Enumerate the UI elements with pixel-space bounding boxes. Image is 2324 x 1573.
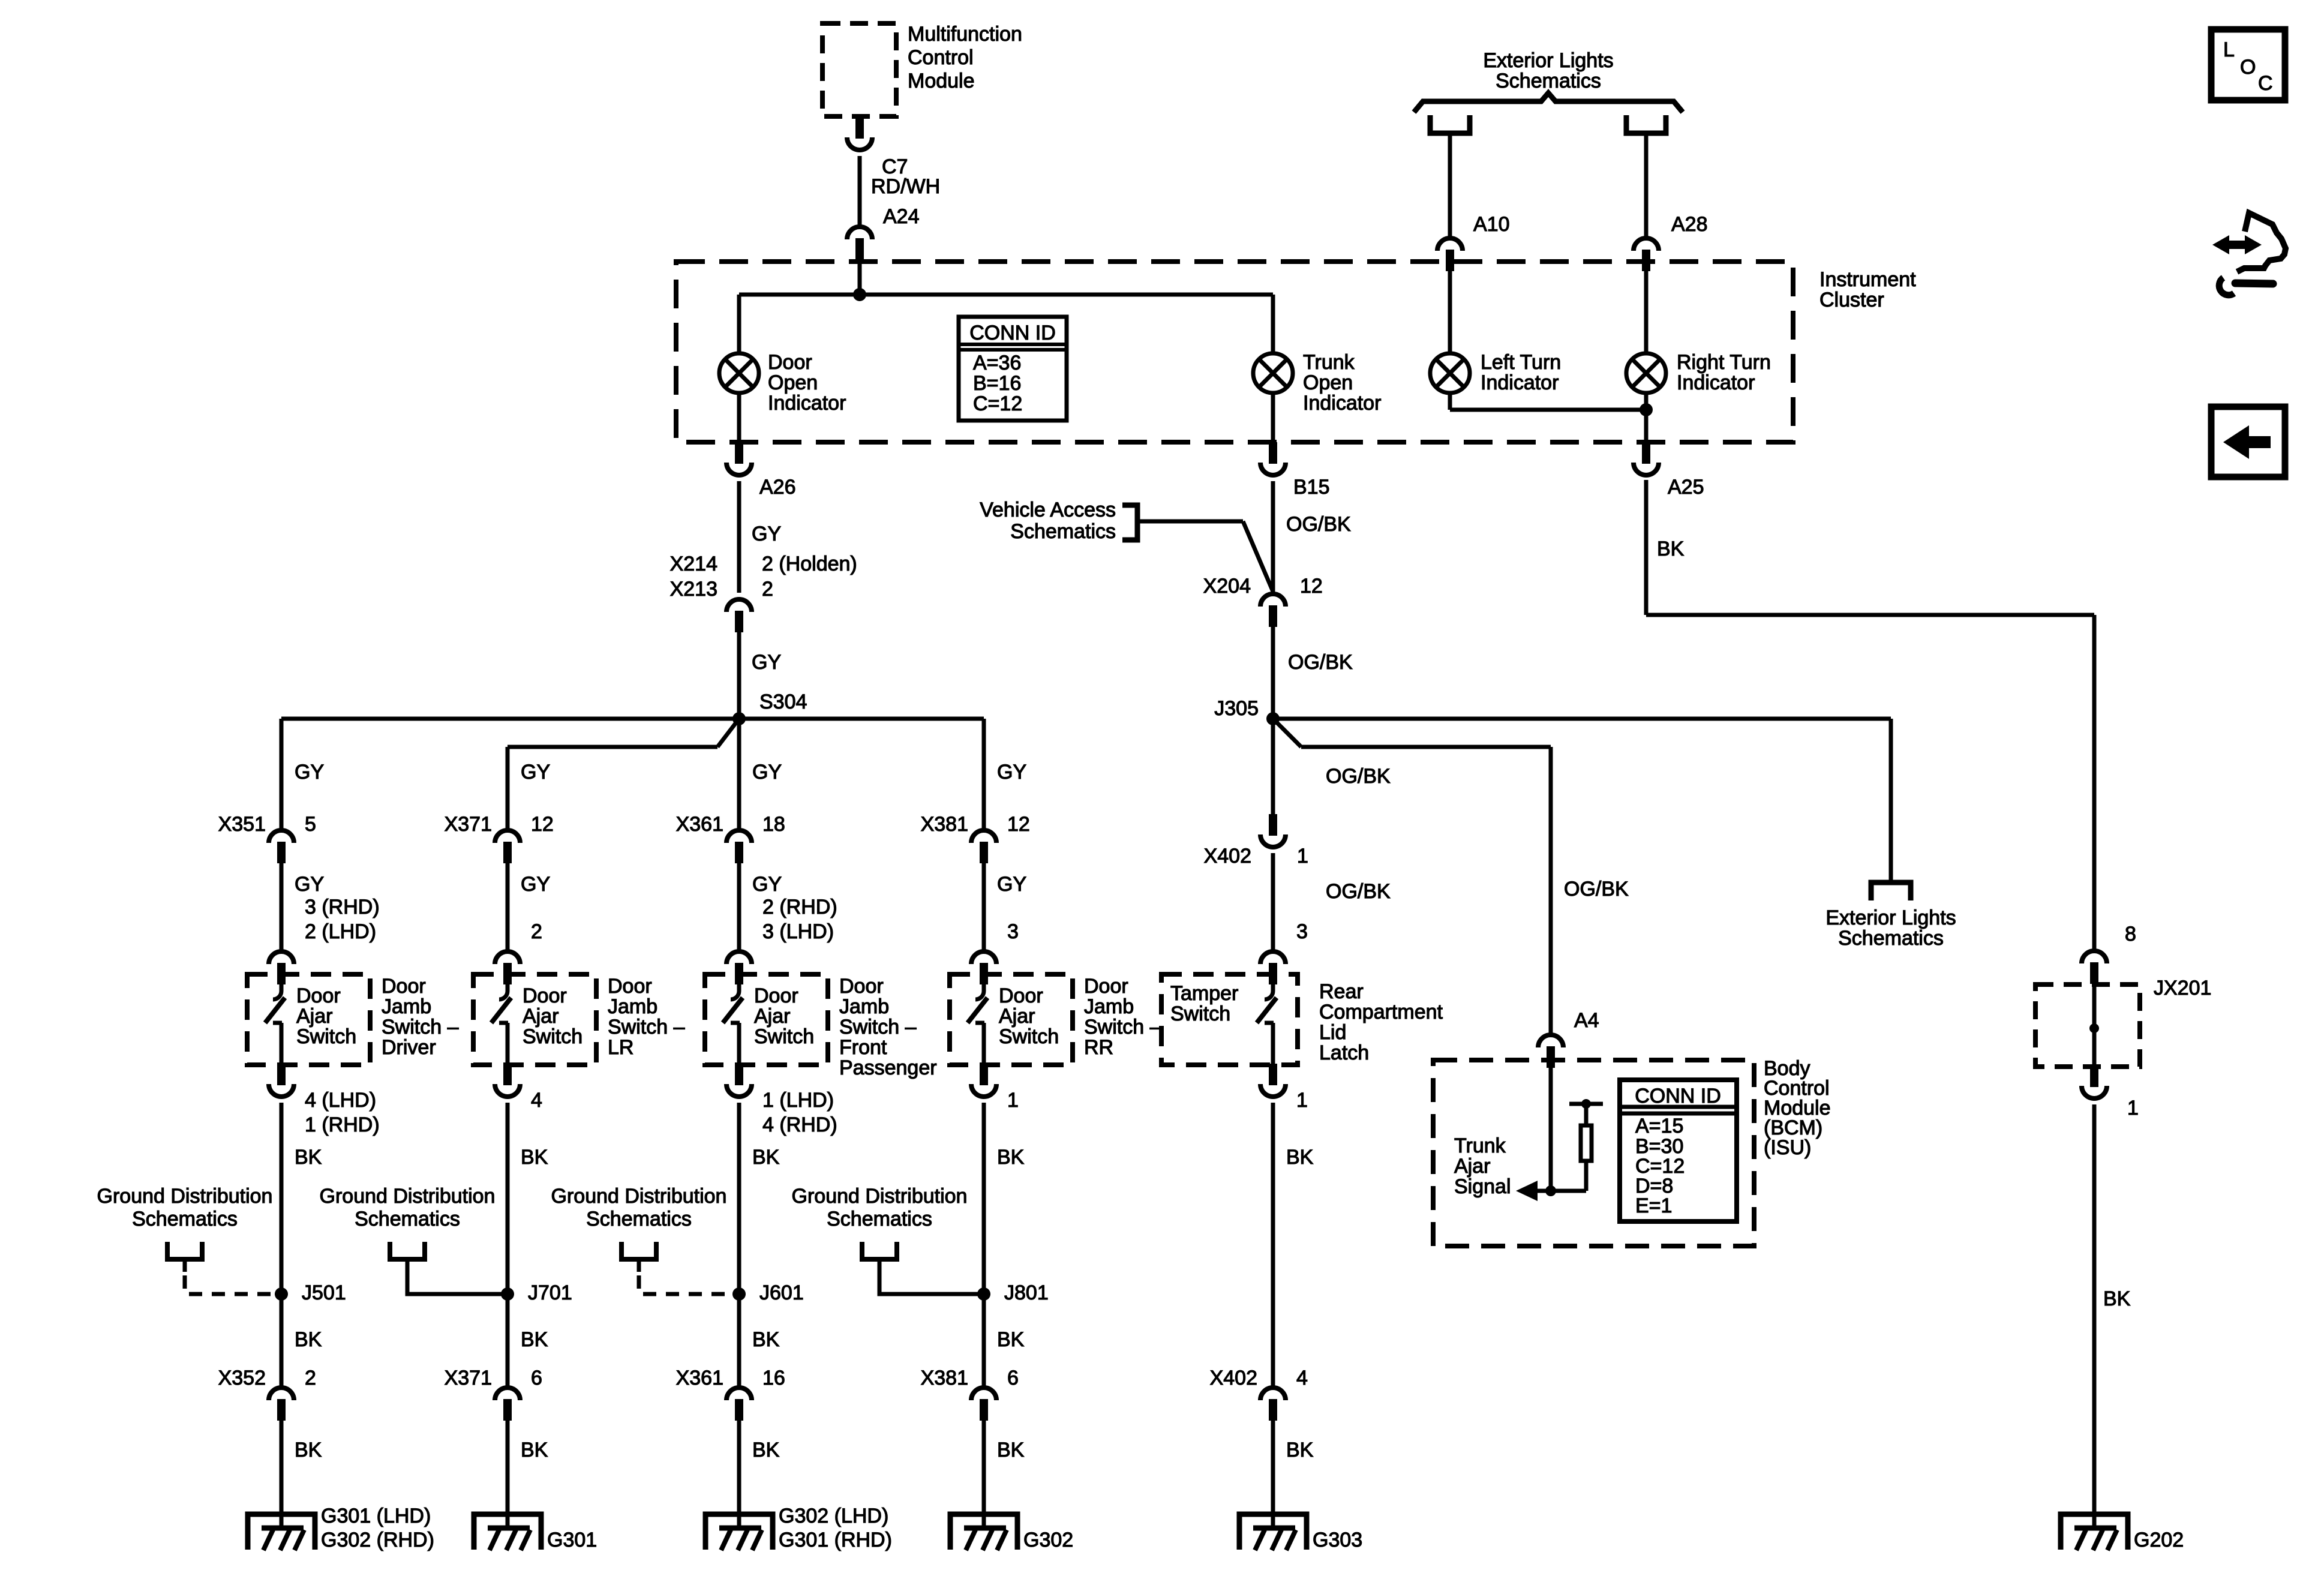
wire J701 down [506, 1294, 510, 1388]
svg-text:LR: LR [608, 1036, 633, 1059]
svg-text:Door: Door [296, 984, 341, 1007]
svg-text:Switch: Switch [1170, 1002, 1230, 1025]
svg-text:Door: Door [1084, 975, 1128, 998]
svg-text:Exterior Lights: Exterior Lights [1825, 906, 1956, 929]
wire trunk ajar signal [1535, 1189, 1586, 1193]
svg-text:G301 (LHD): G301 (LHD) [321, 1505, 431, 1527]
connector B15 (cluster output) [1260, 442, 1286, 475]
svg-text:X361: X361 [676, 1367, 723, 1389]
svg-text:E=1: E=1 [1635, 1194, 1672, 1217]
lamp: Door Open Indicator [719, 353, 759, 393]
wire Right Turn lamp to A25 [1644, 393, 1649, 443]
svg-text:Indicator: Indicator [1481, 371, 1559, 394]
wire S1 to ground splice (BK) [280, 1103, 284, 1294]
wire from Vehicle Access bracket [1137, 520, 1243, 524]
svg-text:Switch –: Switch – [839, 1016, 917, 1038]
switch S4: Door Jamb Switch - RR (dashed box) [950, 974, 1073, 1065]
svg-text:Indicator: Indicator [768, 392, 846, 415]
svg-text:12: 12 [1007, 813, 1030, 836]
wire S4 to ground splice (BK) [982, 1103, 986, 1294]
svg-text:BK: BK [752, 1439, 780, 1461]
switch blade S3 [723, 984, 743, 1065]
link to J701 [407, 1257, 503, 1294]
svg-text:5: 5 [305, 813, 316, 836]
svg-text:Open: Open [1303, 371, 1353, 394]
svg-text:GY: GY [997, 761, 1026, 784]
svg-text:Front: Front [839, 1036, 887, 1059]
svg-text:Door: Door [768, 351, 812, 374]
svg-text:Schematics: Schematics [1838, 927, 1944, 950]
svg-text:RR: RR [1084, 1036, 1113, 1059]
connector X371 pin 12 [495, 830, 520, 863]
wire Door lamp to A26 [737, 393, 741, 443]
wire C7 to A24 (RD/WH) [858, 156, 862, 227]
svg-text:J601: J601 [759, 1281, 804, 1304]
module: Body Control Module BCM (dashed box) [1433, 1060, 1754, 1246]
svg-text:B=16: B=16 [973, 372, 1021, 395]
svg-text:Lid: Lid [1319, 1021, 1346, 1044]
connector pin 1 (out of JX201) [2082, 1065, 2107, 1098]
svg-text:J801: J801 [1004, 1281, 1049, 1304]
dashed link to J501 [183, 1257, 187, 1272]
bracket for Vehicle Access Schematics [1122, 505, 1137, 540]
lamp: Trunk Open Indicator [1253, 353, 1293, 393]
svg-text:B15: B15 [1293, 476, 1330, 499]
svg-text:Jamb: Jamb [1084, 995, 1134, 1018]
wire X371 to switch (GY) [506, 863, 510, 951]
svg-text:8: 8 [2125, 923, 2136, 945]
svg-text:A26: A26 [759, 476, 796, 499]
splice J601 [732, 1287, 746, 1301]
table: CONN ID (BCM) [1620, 1080, 1737, 1221]
connector A28 (into cluster) [1634, 238, 1659, 271]
switch S1: Door Jamb Switch - Driver (dashed box) [247, 974, 370, 1065]
splice J501 [275, 1287, 288, 1301]
svg-text:Ajar: Ajar [296, 1005, 332, 1028]
icon: diagnostic pointer (double arrow + wrench) [2212, 235, 2262, 254]
ground G202 [2061, 1514, 2128, 1550]
connector out of Door Jamb Switch - Front Passenger [726, 1064, 752, 1097]
svg-text:A25: A25 [1668, 476, 1704, 499]
svg-text:Driver: Driver [382, 1036, 436, 1059]
svg-text:BK: BK [295, 1439, 322, 1461]
wire to X381 (GY) [982, 719, 986, 830]
svg-text:2 (LHD): 2 (LHD) [305, 920, 376, 943]
svg-text:Door: Door [839, 975, 884, 998]
wire A26 to X213 (GY) [737, 481, 741, 593]
svg-text:JX201: JX201 [2154, 977, 2211, 999]
svg-text:X402: X402 [1210, 1367, 1257, 1389]
wire to Door Open Indicator [737, 295, 741, 353]
dashed link to J601 [637, 1257, 641, 1272]
wire Trunk lamp to B15 [1271, 393, 1275, 443]
wire JX201 to G202 (BK) [2092, 1104, 2097, 1528]
connector JX201 (dashed box) [2035, 984, 2140, 1067]
svg-text:G303: G303 [1313, 1529, 1362, 1551]
junction at trunk ajar signal [1545, 1185, 1556, 1196]
svg-text:Trunk: Trunk [1303, 351, 1355, 374]
svg-text:BK: BK [521, 1439, 548, 1461]
svg-text:Jamb: Jamb [839, 995, 889, 1018]
wire J601 down [737, 1294, 741, 1388]
svg-text:Schematics: Schematics [586, 1208, 692, 1230]
svg-text:2: 2 [762, 578, 773, 601]
wire J305 down to X402 (OG/BK) [1271, 719, 1275, 815]
module M1: Multifunction Control Module (dashed box) [822, 23, 896, 116]
connector out of Tamper Switch pin 1 [1260, 1064, 1286, 1097]
wire X402 to tamper switch (OG/BK) [1271, 853, 1275, 951]
svg-text:1: 1 [1296, 1089, 1308, 1112]
connector X402 pin 4 [1260, 1388, 1286, 1421]
connector A25 (cluster output) [1634, 442, 1659, 475]
svg-text:OG/BK: OG/BK [1286, 513, 1351, 536]
bracket Ground Distribution (J601) [621, 1242, 656, 1259]
wire A25 to right column [1646, 613, 2094, 617]
svg-text:A=36: A=36 [973, 352, 1021, 374]
wire A10 to Left Turn lamp [1448, 271, 1452, 353]
svg-text:X402: X402 [1204, 845, 1251, 867]
svg-text:BK: BK [997, 1439, 1025, 1461]
connector X352 pin 2 [269, 1388, 294, 1421]
module: Instrument Cluster (dashed box) [676, 262, 1793, 442]
svg-text:Ground Distribution: Ground Distribution [792, 1185, 968, 1208]
wire B15 to X204 (OG/BK) [1271, 481, 1275, 593]
svg-text:Ground Distribution: Ground Distribution [97, 1185, 273, 1208]
svg-text:Schematics: Schematics [1010, 520, 1116, 543]
svg-text:BK: BK [997, 1146, 1025, 1169]
wire Left Turn lamp down [1448, 393, 1452, 410]
svg-text:BK: BK [295, 1328, 322, 1351]
svg-text:Schematics: Schematics [355, 1208, 460, 1230]
svg-text:Switch –: Switch – [1084, 1016, 1161, 1038]
connector out of Door Jamb Switch - LR [495, 1064, 520, 1097]
svg-text:Door: Door [608, 975, 652, 998]
svg-text:J305: J305 [1214, 697, 1259, 720]
wire to X351 (GY) [280, 719, 284, 830]
wire X213 to S304 (GY) [737, 632, 741, 719]
wire tamper switch to X402 pin 4 (BK) [1271, 1103, 1275, 1388]
svg-text:Latch: Latch [1319, 1041, 1369, 1064]
connector A24 (into instrument cluster) [847, 227, 872, 260]
svg-text:Indicator: Indicator [1677, 371, 1755, 394]
svg-text:Schematics: Schematics [827, 1208, 932, 1230]
off-page connector to Exterior Lights (left) [1430, 115, 1470, 133]
svg-text:A4: A4 [1574, 1009, 1599, 1032]
switch S2: Door Jamb Switch - LR (dashed box) [473, 974, 596, 1065]
svg-text:12: 12 [531, 813, 554, 836]
switch blade S1 [265, 984, 285, 1065]
switch S3: Door Jamb Switch - Front Passenger (dashed box) [705, 974, 828, 1065]
icon: LOC reference box [2211, 29, 2285, 100]
svg-text:Switch: Switch [754, 1025, 814, 1048]
splice J801 [977, 1287, 990, 1301]
wire J801 down [982, 1294, 986, 1388]
connector into Tamper Switch pin 3 [1260, 951, 1286, 984]
svg-text:Open: Open [768, 371, 818, 394]
junction on cluster feed wire [853, 288, 866, 301]
bracket Ground Distribution (J801) [862, 1242, 897, 1259]
svg-text:A10: A10 [1473, 213, 1510, 236]
svg-text:4 (LHD): 4 (LHD) [305, 1089, 376, 1112]
ground G302 [950, 1514, 1017, 1550]
svg-text:3: 3 [1296, 920, 1308, 943]
svg-text:X381: X381 [921, 813, 968, 836]
svg-text:C=12: C=12 [973, 392, 1022, 415]
connector A26 (cluster output) [726, 442, 752, 475]
connector pin 8 (into JX201) [2082, 951, 2107, 984]
svg-text:CONN ID: CONN ID [969, 322, 1056, 344]
wire X351 to switch (GY) [280, 863, 284, 951]
svg-text:1: 1 [1297, 845, 1308, 867]
wire cluster internal bus [739, 293, 1273, 297]
svg-text:BK: BK [521, 1146, 548, 1169]
off-page connector Exterior Lights Schematics (bottom) [1871, 882, 1911, 900]
svg-text:Compartment: Compartment [1319, 1001, 1443, 1023]
svg-text:16: 16 [762, 1367, 785, 1389]
svg-text:GY: GY [997, 873, 1026, 896]
wire A25 down (BK) [1644, 480, 1649, 615]
brace for Exterior Lights Schematics [1414, 93, 1683, 112]
wire S304 horizontal bus [281, 717, 984, 721]
svg-text:Door: Door [382, 975, 426, 998]
wire A24 into cluster [858, 262, 862, 295]
wire X361 to switch (GY) [737, 863, 741, 951]
svg-text:X214: X214 [670, 553, 717, 575]
svg-text:3: 3 [1007, 920, 1019, 943]
svg-text:BK: BK [295, 1146, 322, 1169]
svg-text:Switch: Switch [296, 1025, 356, 1048]
svg-text:Switch: Switch [999, 1025, 1059, 1048]
svg-text:Ajar: Ajar [999, 1005, 1035, 1028]
junction at right turn wire [1640, 403, 1653, 416]
svg-text:Ajar: Ajar [523, 1005, 559, 1028]
svg-text:OG/BK: OG/BK [1326, 880, 1391, 903]
wire to X361 (GY) [737, 719, 741, 830]
svg-text:12: 12 [1300, 575, 1323, 598]
wire through JX201 [2092, 984, 2097, 1067]
icon: back arrow box [2211, 407, 2285, 477]
svg-text:CONN ID: CONN ID [1635, 1085, 1721, 1107]
connector into Door Jamb Switch - RR [971, 951, 996, 984]
svg-text:BK: BK [1286, 1439, 1314, 1461]
svg-text:X204: X204 [1203, 575, 1251, 598]
splice J305 [1266, 712, 1280, 725]
wire left-right turn link [1450, 408, 1646, 412]
svg-text:4 (RHD): 4 (RHD) [762, 1113, 837, 1136]
svg-text:Schematics: Schematics [132, 1208, 238, 1230]
svg-text:Jamb: Jamb [608, 995, 657, 1018]
splice J701 [501, 1287, 514, 1301]
svg-text:2 (RHD): 2 (RHD) [762, 896, 837, 918]
svg-text:X352: X352 [218, 1367, 266, 1389]
svg-text:BK: BK [752, 1146, 780, 1169]
svg-text:2 (Holden): 2 (Holden) [762, 553, 857, 575]
svg-text:X381: X381 [921, 1367, 968, 1389]
svg-text:(ISU): (ISU) [1764, 1136, 1811, 1159]
svg-text:Passenger: Passenger [839, 1056, 937, 1079]
wire S304 diagonal branch [717, 719, 739, 747]
svg-text:X213: X213 [670, 578, 717, 601]
off-page connector to Exterior Lights (right) [1626, 115, 1666, 133]
wire X204 to J305 (OG/BK) [1271, 627, 1275, 719]
connector X371 pin 6 [495, 1388, 520, 1421]
svg-text:2: 2 [305, 1367, 316, 1389]
connector into Door Jamb Switch - Driver [269, 951, 294, 984]
svg-text:Indicator: Indicator [1303, 392, 1381, 415]
svg-text:GY: GY [295, 761, 324, 784]
svg-text:G302 (LHD): G302 (LHD) [779, 1505, 888, 1527]
connector out of Door Jamb Switch - Driver [269, 1064, 294, 1097]
svg-text:3 (LHD): 3 (LHD) [762, 920, 834, 943]
wire X381 to ground [982, 1421, 986, 1528]
svg-text:Door: Door [523, 984, 567, 1007]
bracket Ground Distribution (J501) [167, 1242, 202, 1259]
svg-text:Control: Control [908, 46, 974, 69]
wire J501 down [280, 1294, 284, 1388]
switch blade Tamper Switch [1257, 984, 1277, 1065]
svg-text:BK: BK [997, 1328, 1025, 1351]
wire branch toward BCM [1301, 745, 1551, 749]
svg-text:G301 (RHD): G301 (RHD) [779, 1529, 892, 1551]
svg-text:Door: Door [754, 984, 798, 1007]
svg-text:4: 4 [531, 1089, 542, 1112]
svg-text:GY: GY [521, 761, 550, 784]
connector X361 pin 16 [726, 1388, 752, 1421]
svg-text:OG/BK: OG/BK [1288, 651, 1353, 674]
wire A28 to Right Turn lamp [1644, 271, 1649, 353]
svg-text:Left Turn: Left Turn [1481, 351, 1561, 374]
connector A4 (into BCM) [1538, 1035, 1563, 1068]
connector X351 pin 5 [269, 830, 294, 863]
svg-text:X361: X361 [676, 813, 723, 836]
svg-text:Ajar: Ajar [1454, 1155, 1490, 1178]
svg-text:J501: J501 [302, 1281, 346, 1304]
svg-text:Instrument: Instrument [1819, 268, 1916, 291]
svg-text:Rear: Rear [1319, 980, 1364, 1003]
lamp: Right Turn Indicator [1626, 353, 1666, 393]
svg-text:BK: BK [521, 1328, 548, 1351]
svg-text:4: 4 [1296, 1367, 1308, 1389]
wire down to exterior lights connector [1889, 719, 1893, 882]
svg-text:Tamper: Tamper [1170, 982, 1238, 1005]
ground G303 [1239, 1514, 1307, 1550]
svg-text:1: 1 [1007, 1089, 1019, 1112]
svg-text:A=15: A=15 [1635, 1115, 1683, 1137]
svg-text:GY: GY [295, 873, 324, 896]
wire A4 inside BCM [1549, 1068, 1553, 1191]
resistor (pull-up) in BCM [1584, 1161, 1589, 1191]
svg-text:GY: GY [752, 523, 781, 545]
svg-text:BK: BK [2103, 1287, 2131, 1310]
wire to A10 [1448, 133, 1452, 238]
svg-text:Vehicle Access: Vehicle Access [980, 499, 1116, 521]
wire X352 to ground [280, 1421, 284, 1528]
svg-text:Right Turn: Right Turn [1677, 351, 1771, 374]
wire resistor supply bar [1569, 1102, 1603, 1106]
svg-text:A28: A28 [1671, 213, 1708, 236]
svg-text:Switch: Switch [523, 1025, 582, 1048]
svg-text:18: 18 [762, 813, 785, 836]
link to J801 [879, 1257, 979, 1294]
svg-text:J701: J701 [528, 1281, 572, 1304]
connector X361 pin 18 [726, 830, 752, 863]
svg-text:OG/BK: OG/BK [1564, 878, 1629, 900]
splice S304 [732, 712, 746, 725]
svg-text:X371: X371 [445, 1367, 492, 1389]
wire X361 to ground [737, 1421, 741, 1528]
svg-text:L: L [2223, 38, 2235, 61]
wire X371 to ground [506, 1421, 510, 1528]
svg-text:Ajar: Ajar [754, 1005, 790, 1028]
svg-text:Multifunction: Multifunction [908, 23, 1022, 46]
ground G302 [705, 1514, 773, 1550]
lamp: Left Turn Indicator [1430, 353, 1470, 393]
svg-text:C: C [2258, 72, 2273, 95]
wire branch to door jamb switch LR [508, 745, 717, 749]
svg-text:O: O [2240, 56, 2256, 79]
svg-text:Ground Distribution: Ground Distribution [551, 1185, 727, 1208]
signal arrow: Trunk Ajar Signal [1516, 1181, 1538, 1201]
connector X213/X214 pin 2 [726, 599, 752, 632]
svg-text:6: 6 [531, 1367, 542, 1389]
junction inside JX201 [2089, 1023, 2099, 1033]
svg-text:Door: Door [999, 984, 1043, 1007]
svg-text:1: 1 [2127, 1097, 2139, 1119]
connector X204 pin 12 [1260, 594, 1286, 627]
svg-text:GY: GY [521, 873, 550, 896]
svg-text:BK: BK [1286, 1146, 1314, 1169]
svg-text:A24: A24 [883, 205, 920, 228]
svg-text:Module: Module [908, 70, 975, 92]
svg-text:G202: G202 [2134, 1529, 2184, 1551]
svg-text:GY: GY [752, 651, 781, 674]
svg-text:Ground Distribution: Ground Distribution [320, 1185, 496, 1208]
svg-text:Exterior Lights: Exterior Lights [1483, 49, 1613, 72]
svg-text:1 (LHD): 1 (LHD) [762, 1089, 834, 1112]
svg-text:Jamb: Jamb [382, 995, 431, 1018]
wire to A28 [1644, 133, 1649, 238]
svg-text:S304: S304 [759, 691, 807, 713]
svg-text:G301: G301 [547, 1529, 597, 1551]
svg-text:G302: G302 [1023, 1529, 1073, 1551]
connector into Door Jamb Switch - Front Passenger [726, 951, 752, 984]
svg-text:3 (RHD): 3 (RHD) [305, 896, 380, 918]
connector A10 (into cluster) [1437, 238, 1463, 271]
svg-text:OG/BK: OG/BK [1326, 765, 1391, 788]
connector out of Door Jamb Switch - RR [971, 1064, 996, 1097]
svg-text:X371: X371 [445, 813, 492, 836]
wire J305 diagonal branch [1273, 719, 1301, 747]
wire right column down to JX201 [2092, 615, 2097, 951]
svg-text:GY: GY [752, 761, 782, 784]
connector X381 pin 6 [971, 1388, 996, 1421]
wire S2 to ground splice (BK) [506, 1103, 510, 1294]
svg-text:6: 6 [1007, 1367, 1019, 1389]
svg-text:2: 2 [531, 920, 542, 943]
svg-text:BK: BK [1657, 538, 1685, 560]
svg-text:G302 (RHD): G302 (RHD) [321, 1529, 434, 1551]
svg-text:Switch –: Switch – [382, 1016, 459, 1038]
switch blade S4 [968, 984, 987, 1065]
svg-text:Cluster: Cluster [1819, 289, 1884, 311]
svg-text:Signal: Signal [1454, 1175, 1511, 1198]
junction on supply bar [1581, 1099, 1591, 1109]
wire X402 to ground [1271, 1421, 1275, 1528]
wire to Trunk Open Indicator [1271, 295, 1275, 353]
wire down to A4 (OG/BK) [1549, 747, 1553, 1035]
svg-text:X351: X351 [218, 813, 266, 836]
connector X402 pin 1 [1260, 814, 1286, 847]
